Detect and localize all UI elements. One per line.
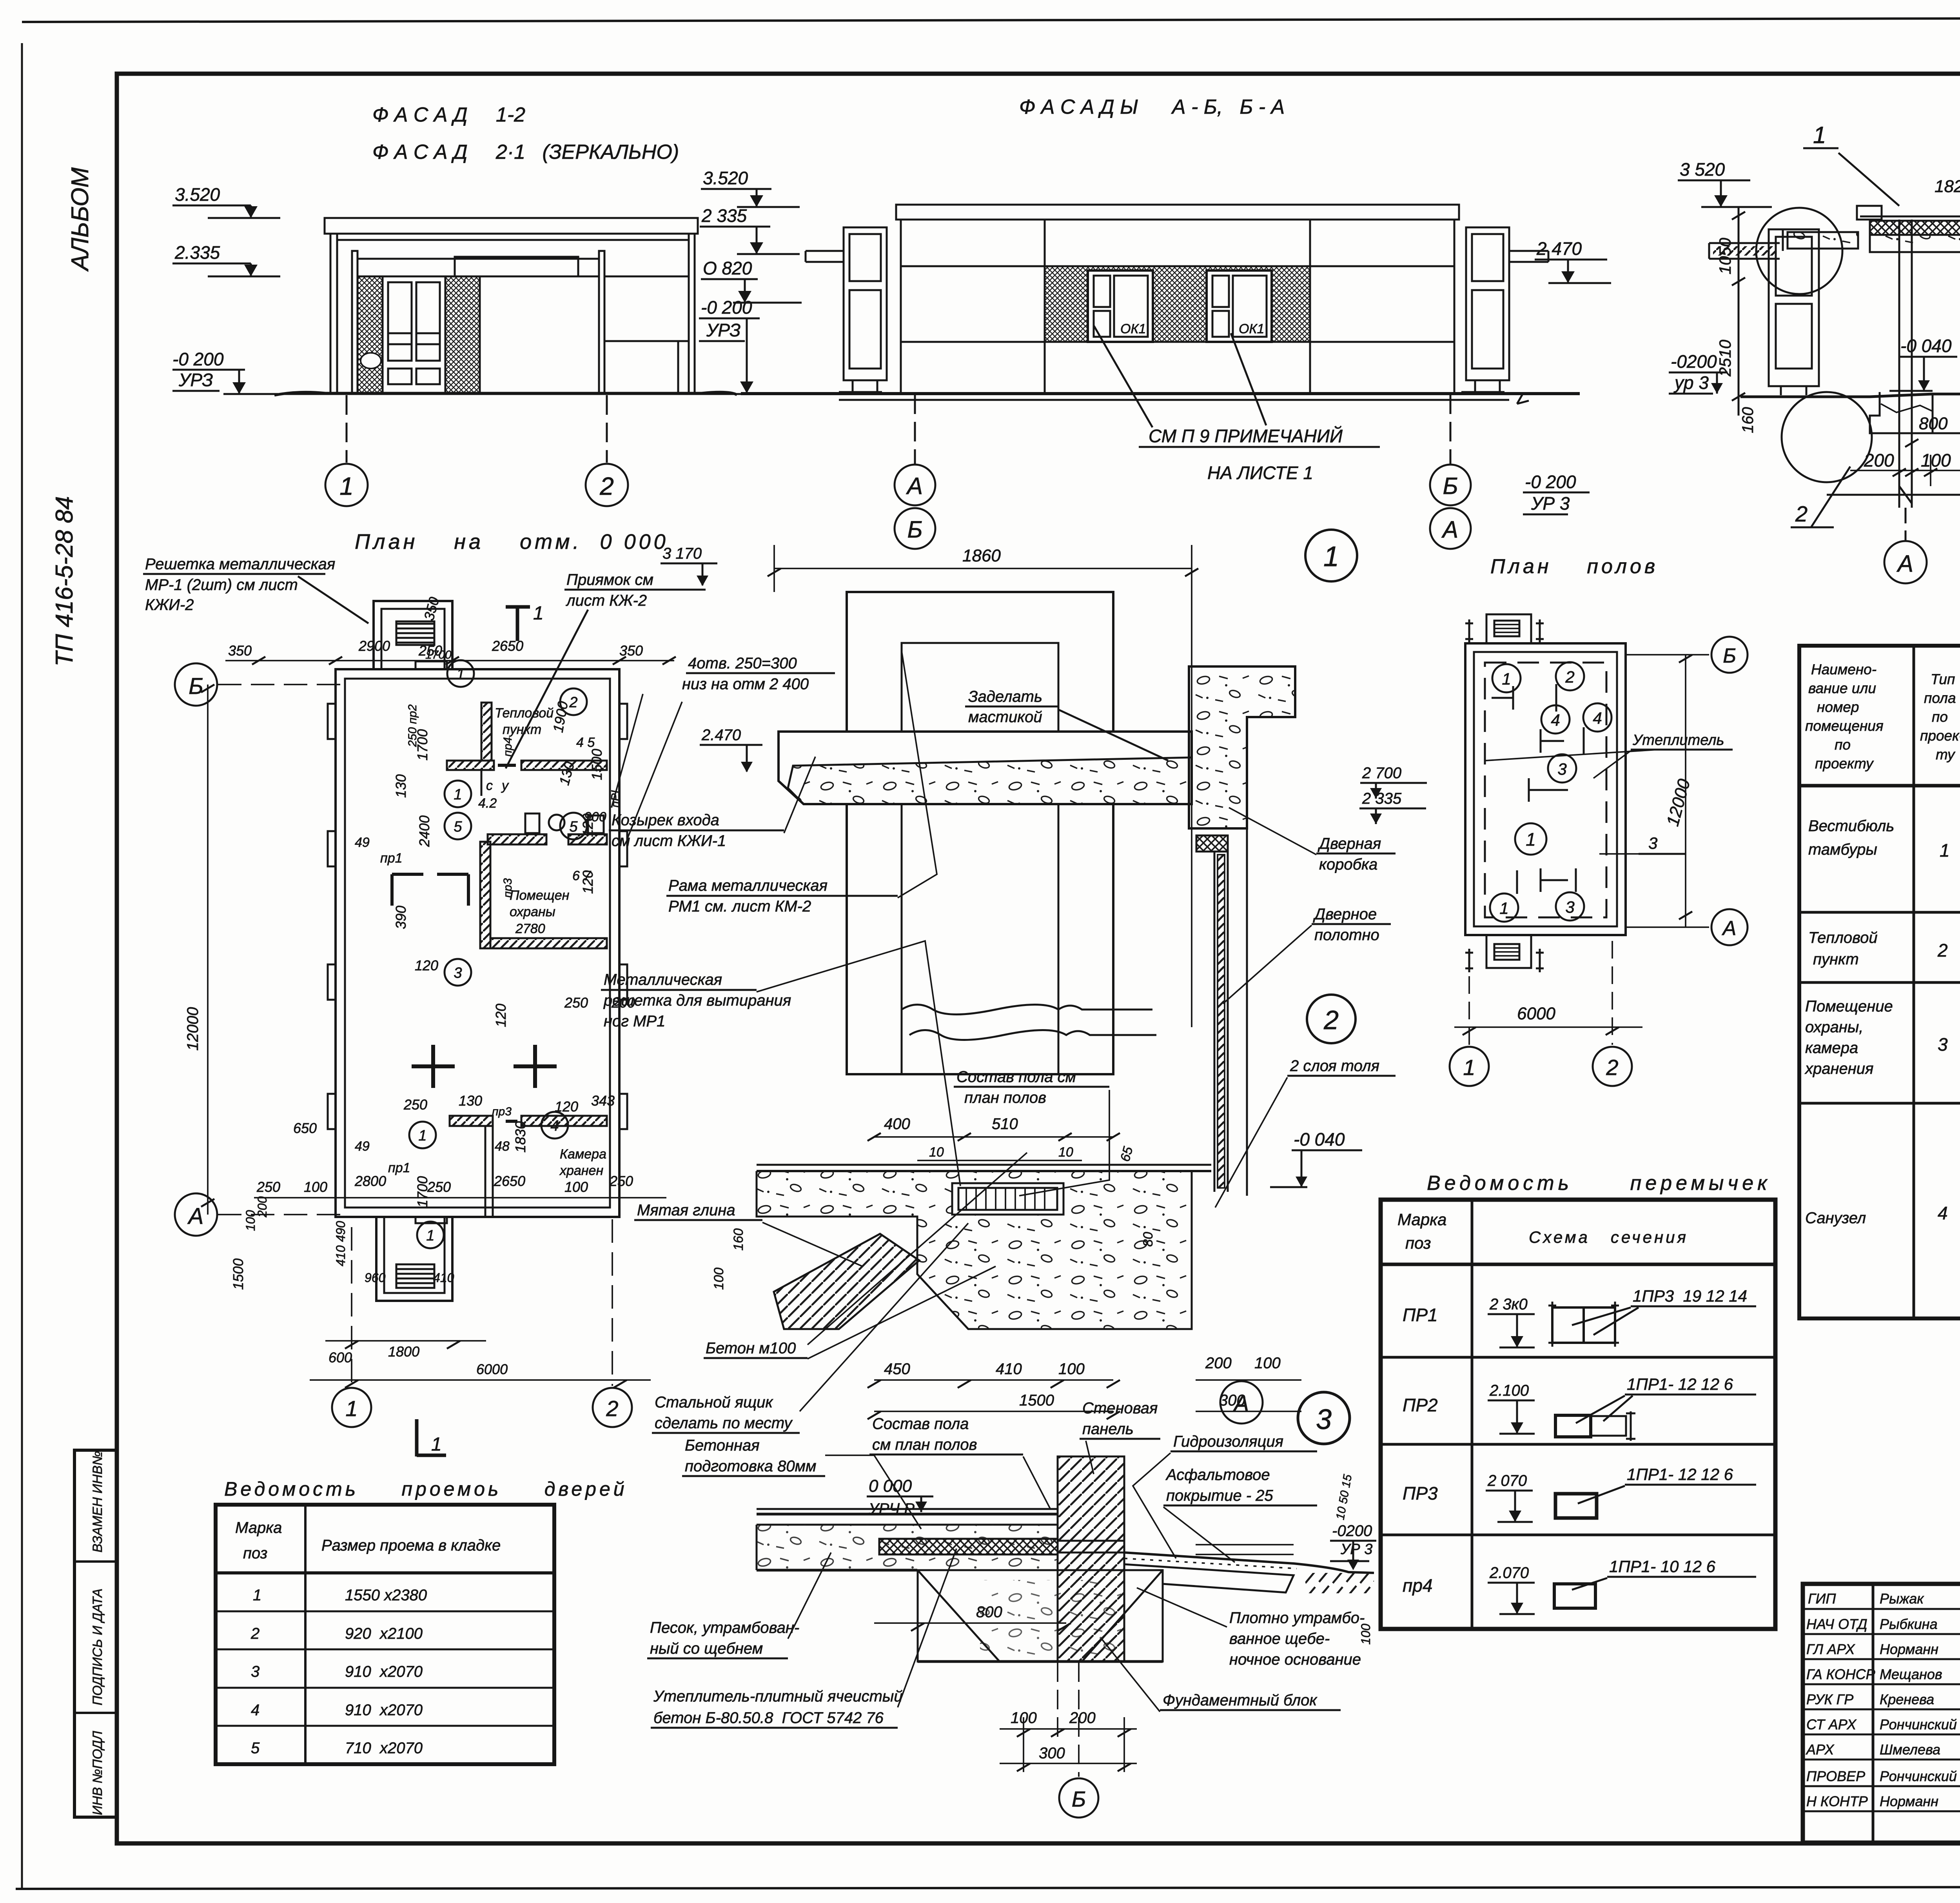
svg-text:Решетка металлическая: Решетка металлическая bbox=[145, 556, 335, 573]
svg-text:камера: камера bbox=[1805, 1039, 1858, 1057]
svg-text:120: 120 bbox=[580, 813, 596, 837]
svg-text:130: 130 bbox=[459, 1093, 482, 1109]
svg-text:1800: 1800 bbox=[388, 1344, 419, 1360]
svg-text:1ПР1- 10 12 6: 1ПР1- 10 12 6 bbox=[1609, 1557, 1716, 1576]
svg-text:200: 200 bbox=[1864, 450, 1894, 470]
svg-text:коробка: коробка bbox=[1319, 856, 1377, 873]
svg-text:2 335: 2 335 bbox=[701, 205, 747, 226]
svg-text:1ПР1- 12 12 6: 1ПР1- 12 12 6 bbox=[1627, 1375, 1733, 1393]
svg-text:План полов: План полов bbox=[1490, 555, 1658, 578]
svg-text:сделать по месту: сделать по месту bbox=[655, 1415, 793, 1432]
svg-text:350: 350 bbox=[228, 643, 252, 659]
svg-text:1: 1 bbox=[454, 786, 462, 803]
svg-text:Помещение: Помещение bbox=[1805, 998, 1893, 1015]
svg-text:Б: Б bbox=[1072, 1787, 1086, 1811]
svg-text:ПР3: ПР3 bbox=[1403, 1483, 1438, 1504]
svg-text:Норманн: Норманн bbox=[1880, 1641, 1938, 1657]
svg-text:ванное щебе-: ванное щебе- bbox=[1229, 1630, 1330, 1647]
svg-text:пр3: пр3 bbox=[501, 878, 514, 898]
svg-text:4: 4 bbox=[251, 1701, 260, 1719]
svg-text:Стеновая: Стеновая bbox=[1082, 1400, 1158, 1417]
svg-text:Утеплитель-плитный ячеистый: Утеплитель-плитный ячеистый bbox=[653, 1688, 903, 1705]
svg-text:А: А bbox=[1722, 917, 1737, 940]
svg-text:ног МР1: ног МР1 bbox=[604, 1013, 665, 1030]
svg-text:ОК1: ОК1 bbox=[1239, 321, 1264, 336]
svg-text:4отв. 250=300: 4отв. 250=300 bbox=[688, 655, 797, 672]
svg-text:-0 200: -0 200 bbox=[701, 297, 752, 318]
svg-text:800: 800 bbox=[976, 1603, 1002, 1621]
svg-text:120: 120 bbox=[580, 870, 596, 894]
svg-text:2: 2 bbox=[569, 694, 577, 711]
svg-text:6000: 6000 bbox=[476, 1361, 508, 1377]
svg-text:Мещанов: Мещанов bbox=[1880, 1666, 1942, 1682]
svg-text:по: по bbox=[1932, 709, 1948, 725]
svg-text:3: 3 bbox=[1648, 834, 1657, 852]
svg-text:НА ЛИСТЕ 1: НА ЛИСТЕ 1 bbox=[1207, 463, 1313, 483]
svg-text:182-82 0 1 40: 182-82 0 1 40 bbox=[1935, 177, 1960, 196]
svg-text:2650: 2650 bbox=[494, 1173, 525, 1189]
svg-text:5: 5 bbox=[454, 819, 462, 835]
svg-text:3: 3 bbox=[1938, 1034, 1948, 1055]
svg-text:Рыбкина: Рыбкина bbox=[1880, 1616, 1938, 1632]
svg-text:Бетонная: Бетонная bbox=[685, 1437, 760, 1454]
svg-text:960: 960 bbox=[365, 1271, 386, 1285]
svg-text:910 х2070: 910 х2070 bbox=[345, 1701, 423, 1719]
svg-text:ВЗАМЕН ИНВ№: ВЗАМЕН ИНВ№ bbox=[90, 1451, 105, 1553]
svg-text:2 слоя толя: 2 слоя толя bbox=[1290, 1057, 1379, 1075]
svg-text:вание или: вание или bbox=[1808, 680, 1876, 696]
svg-text:Ф А С А Д 2·1 (ЗЕРКАЛЬНО: Ф А С А Д 2·1 (ЗЕРКАЛЬНО) bbox=[372, 141, 679, 163]
svg-text:120: 120 bbox=[415, 957, 438, 973]
svg-text:1050: 1050 bbox=[1716, 238, 1734, 274]
svg-text:пр4: пр4 bbox=[501, 737, 514, 757]
svg-text:2: 2 bbox=[1565, 668, 1574, 686]
svg-text:ИНВ №ПОДЛ: ИНВ №ПОДЛ bbox=[90, 1730, 105, 1815]
svg-text:1500: 1500 bbox=[589, 749, 605, 780]
svg-text:2 470: 2 470 bbox=[1536, 238, 1582, 259]
svg-text:2 070: 2 070 bbox=[1487, 1472, 1527, 1489]
svg-text:100: 100 bbox=[1254, 1355, 1281, 1372]
svg-text:мастикой: мастикой bbox=[968, 708, 1042, 726]
svg-text:хранения: хранения bbox=[1804, 1060, 1873, 1077]
svg-text:пункт: пункт bbox=[1813, 951, 1859, 968]
svg-text:1: 1 bbox=[345, 1396, 358, 1421]
svg-text:2900: 2900 bbox=[358, 638, 390, 654]
svg-text:ПР2: ПР2 bbox=[1403, 1395, 1438, 1415]
svg-text:2650: 2650 bbox=[492, 638, 523, 654]
svg-text:2.470: 2.470 bbox=[701, 726, 741, 744]
svg-text:номер: номер bbox=[1817, 699, 1859, 715]
svg-text:РМ1 см. лист КМ-2: РМ1 см. лист КМ-2 bbox=[668, 898, 811, 915]
svg-text:410: 410 bbox=[996, 1360, 1022, 1378]
svg-text:АЛЬБОМ: АЛЬБОМ bbox=[67, 167, 94, 272]
svg-text:2 335: 2 335 bbox=[1362, 790, 1402, 807]
svg-text:О 820: О 820 bbox=[703, 258, 752, 278]
svg-text:ный со щебнем: ный со щебнем bbox=[650, 1640, 763, 1657]
svg-text:200: 200 bbox=[1205, 1355, 1232, 1372]
svg-text:Тепловой: Тепловой bbox=[1808, 929, 1878, 946]
svg-text:450: 450 bbox=[884, 1360, 910, 1378]
svg-text:160: 160 bbox=[1739, 407, 1757, 433]
svg-text:А: А bbox=[187, 1204, 204, 1229]
svg-text:Наимено-: Наимено- bbox=[1811, 661, 1877, 677]
svg-text:3: 3 bbox=[251, 1663, 260, 1680]
svg-text:ГИП: ГИП bbox=[1808, 1591, 1836, 1607]
svg-text:хранен: хранен bbox=[559, 1163, 603, 1178]
svg-text:Ведомость проемоь двер: Ведомость проемоь дверей bbox=[224, 1478, 628, 1500]
svg-text:пРL: пРL bbox=[609, 787, 622, 808]
svg-text:Рончинский: Рончинский bbox=[1880, 1716, 1957, 1732]
svg-text:УРЗ: УРЗ bbox=[706, 320, 740, 340]
svg-text:Песок, утрамбован-: Песок, утрамбован- bbox=[650, 1619, 799, 1636]
svg-text:Козырек входа: Козырек входа bbox=[612, 812, 719, 829]
svg-text:250 пр2: 250 пр2 bbox=[406, 704, 419, 747]
svg-text:Бетон м100: Бетон м100 bbox=[706, 1340, 796, 1357]
svg-text:-0 040: -0 040 bbox=[1294, 1129, 1345, 1149]
svg-text:2.335: 2.335 bbox=[174, 242, 220, 263]
svg-text:НАЧ ОТД: НАЧ ОТД bbox=[1806, 1616, 1867, 1632]
svg-text:350: 350 bbox=[619, 643, 643, 659]
svg-text:160: 160 bbox=[731, 1228, 746, 1251]
svg-text:5: 5 bbox=[251, 1740, 260, 1757]
svg-text:Санузел: Санузел bbox=[1805, 1209, 1866, 1227]
svg-text:поз: поз bbox=[1405, 1234, 1431, 1252]
svg-text:пр3: пр3 bbox=[492, 1105, 512, 1118]
svg-text:-0 200: -0 200 bbox=[172, 349, 224, 369]
svg-text:Дверная: Дверная bbox=[1318, 835, 1381, 852]
svg-text:Размер проема в кладке: Размер проема в кладке bbox=[321, 1537, 501, 1554]
svg-text:Заделать: Заделать bbox=[968, 688, 1042, 705]
svg-text:920 х2100: 920 х2100 bbox=[345, 1625, 423, 1642]
svg-text:1: 1 bbox=[1813, 122, 1826, 148]
svg-text:200: 200 bbox=[1069, 1709, 1096, 1727]
svg-text:1: 1 bbox=[1526, 829, 1536, 850]
svg-text:100: 100 bbox=[304, 1179, 327, 1195]
svg-text:910 х2070: 910 х2070 bbox=[345, 1663, 423, 1680]
svg-text:343: 343 bbox=[591, 1093, 615, 1109]
svg-text:1: 1 bbox=[533, 603, 544, 624]
svg-text:Дверное: Дверное bbox=[1313, 906, 1377, 923]
svg-text:проекту: проекту bbox=[1815, 755, 1874, 772]
svg-text:2780: 2780 bbox=[515, 921, 545, 936]
svg-text:130: 130 bbox=[393, 774, 409, 798]
svg-text:250: 250 bbox=[609, 1173, 633, 1189]
svg-text:120: 120 bbox=[555, 1099, 578, 1115]
svg-text:ГЛ АРХ: ГЛ АРХ bbox=[1806, 1641, 1855, 1657]
svg-text:УР 3: УР 3 bbox=[1531, 493, 1570, 514]
svg-text:Тепловой: Тепловой bbox=[495, 706, 554, 721]
svg-text:4: 4 bbox=[1551, 711, 1560, 729]
svg-text:-0 200: -0 200 bbox=[1525, 472, 1576, 492]
svg-text:Марка: Марка bbox=[1397, 1210, 1446, 1229]
svg-text:2 3к0: 2 3к0 bbox=[1489, 1296, 1528, 1313]
svg-text:12000: 12000 bbox=[1663, 777, 1694, 828]
svg-text:ОК1: ОК1 bbox=[1120, 321, 1146, 336]
svg-text:3.520: 3.520 bbox=[703, 168, 748, 188]
svg-text:покрытие - 25: покрытие - 25 bbox=[1166, 1487, 1273, 1504]
svg-text:2.100: 2.100 bbox=[1489, 1382, 1529, 1399]
svg-text:1: 1 bbox=[418, 1128, 426, 1144]
svg-text:-0200: -0200 bbox=[1671, 351, 1717, 372]
svg-text:2: 2 bbox=[250, 1625, 260, 1642]
svg-text:80: 80 bbox=[1141, 1232, 1156, 1247]
svg-text:2: 2 bbox=[1795, 501, 1808, 526]
svg-text:СМ П 9 ПРИМЕЧАНИЙ: СМ П 9 ПРИМЕЧАНИЙ bbox=[1149, 425, 1343, 446]
svg-text:250: 250 bbox=[256, 1179, 280, 1195]
svg-text:2.070: 2.070 bbox=[1489, 1564, 1529, 1582]
svg-text:3.520: 3.520 bbox=[175, 184, 220, 205]
svg-text:1: 1 bbox=[1502, 670, 1511, 688]
svg-text:Ф А С А Д 1-2: Ф А С А Д 1-2 bbox=[372, 104, 525, 126]
svg-text:3: 3 bbox=[1316, 1404, 1332, 1435]
svg-text:Вестибюль: Вестибюль bbox=[1808, 817, 1894, 835]
svg-text:Асфальтовое: Асфальтовое bbox=[1165, 1466, 1270, 1484]
svg-text:1830: 1830 bbox=[512, 1121, 528, 1153]
svg-text:А: А bbox=[1233, 1391, 1249, 1416]
svg-text:пр1: пр1 bbox=[388, 1160, 410, 1175]
svg-text:2400: 2400 bbox=[416, 815, 432, 847]
svg-text:МР-1 (2шт) см лист: МР-1 (2шт) см лист bbox=[145, 576, 298, 594]
svg-text:подготовка 80мм: подготовка 80мм bbox=[685, 1458, 816, 1475]
svg-text:2: 2 bbox=[599, 472, 614, 500]
svg-text:1: 1 bbox=[431, 1434, 442, 1455]
svg-text:охраны: охраны bbox=[510, 904, 555, 919]
svg-text:48: 48 bbox=[495, 1139, 510, 1154]
svg-text:710 х2070: 710 х2070 bbox=[345, 1740, 423, 1757]
svg-text:поз: поз bbox=[243, 1545, 267, 1562]
svg-text:Кренева: Кренева bbox=[1880, 1691, 1934, 1707]
svg-text:-0 040: -0 040 bbox=[1900, 336, 1952, 356]
svg-text:КЖИ-2: КЖИ-2 bbox=[145, 596, 194, 614]
svg-text:Н КОНТР: Н КОНТР bbox=[1806, 1793, 1868, 1809]
svg-text:650: 650 bbox=[293, 1120, 317, 1136]
svg-text:1: 1 bbox=[339, 472, 354, 500]
svg-text:4: 4 bbox=[550, 1118, 559, 1134]
svg-text:Ведомость перемычек: Ведомость перемычек bbox=[1427, 1172, 1771, 1195]
svg-text:А: А bbox=[1896, 550, 1913, 577]
svg-text:3: 3 bbox=[1557, 760, 1566, 778]
svg-text:100: 100 bbox=[1359, 1623, 1373, 1645]
svg-text:6000: 6000 bbox=[1517, 1004, 1555, 1023]
svg-text:см план полов: см план полов bbox=[872, 1436, 977, 1453]
svg-text:4.2: 4.2 bbox=[478, 796, 497, 811]
svg-text:1: 1 bbox=[253, 1587, 261, 1604]
svg-text:100: 100 bbox=[1058, 1360, 1085, 1378]
svg-text:А: А bbox=[1441, 516, 1458, 543]
svg-text:100: 100 bbox=[1921, 450, 1951, 470]
svg-text:4 5: 4 5 bbox=[576, 735, 595, 750]
svg-text:Стальной ящик: Стальной ящик bbox=[655, 1394, 773, 1411]
svg-text:1860: 1860 bbox=[962, 546, 1001, 565]
svg-text:ГА КОНСР: ГА КОНСР bbox=[1806, 1666, 1875, 1682]
svg-text:пр4: пр4 bbox=[1403, 1575, 1432, 1596]
svg-text:полотно: полотно bbox=[1314, 926, 1379, 944]
svg-text:по: по bbox=[1835, 737, 1851, 753]
svg-text:510: 510 bbox=[992, 1115, 1018, 1133]
svg-text:12000: 12000 bbox=[184, 1007, 201, 1051]
svg-text:ПР1: ПР1 bbox=[1403, 1305, 1438, 1325]
svg-text:панель: панель bbox=[1082, 1420, 1134, 1438]
svg-text:3 520: 3 520 bbox=[1680, 159, 1725, 180]
svg-text:Состав пола см: Состав пола см bbox=[956, 1068, 1076, 1086]
svg-text:ПОДПИСЬ И ДАТА: ПОДПИСЬ И ДАТА bbox=[90, 1589, 105, 1705]
svg-text:см лист КЖИ-1: см лист КЖИ-1 bbox=[612, 832, 726, 850]
svg-text:проек-: проек- bbox=[1920, 728, 1960, 744]
svg-text:3: 3 bbox=[1565, 898, 1574, 916]
svg-text:100: 100 bbox=[564, 1179, 588, 1195]
svg-text:пункт: пункт bbox=[503, 722, 541, 737]
svg-text:2: 2 bbox=[1323, 1005, 1339, 1035]
svg-text:390: 390 bbox=[393, 906, 409, 929]
svg-text:1550 х2380: 1550 х2380 bbox=[345, 1587, 427, 1604]
svg-text:350: 350 bbox=[421, 595, 442, 622]
svg-text:600: 600 bbox=[328, 1349, 352, 1366]
svg-text:Марка: Марка bbox=[235, 1519, 282, 1536]
svg-text:4: 4 bbox=[1593, 709, 1602, 727]
svg-text:410: 410 bbox=[433, 1271, 454, 1285]
svg-text:Норманн: Норманн bbox=[1880, 1793, 1938, 1809]
svg-text:ночное основание: ночное основание bbox=[1229, 1651, 1361, 1668]
svg-text:ТП 416-5-28 84: ТП 416-5-28 84 bbox=[51, 496, 78, 666]
svg-text:2: 2 bbox=[1606, 1055, 1618, 1080]
svg-text:УРЗ: УРЗ bbox=[178, 370, 213, 390]
svg-text:2: 2 bbox=[1937, 940, 1948, 961]
svg-text:3 170: 3 170 bbox=[662, 545, 702, 562]
svg-text:Плотно утрамбо-: Плотно утрамбо- bbox=[1229, 1609, 1365, 1627]
svg-text:10 50 15: 10 50 15 bbox=[1334, 1473, 1354, 1521]
svg-text:УР 3: УР 3 bbox=[1340, 1541, 1372, 1558]
svg-text:1: 1 bbox=[1499, 899, 1508, 917]
svg-text:1ПР1- 12 12 6: 1ПР1- 12 12 6 bbox=[1627, 1465, 1733, 1484]
svg-text:Б: Б bbox=[907, 516, 922, 543]
svg-text:с: с bbox=[486, 778, 493, 793]
svg-text:1900: 1900 bbox=[550, 700, 571, 734]
svg-text:800: 800 bbox=[1919, 414, 1948, 433]
svg-text:Состав пола: Состав пола bbox=[872, 1415, 969, 1433]
svg-text:100: 100 bbox=[711, 1267, 726, 1290]
svg-text:пр1: пр1 bbox=[380, 851, 403, 866]
svg-text:1500: 1500 bbox=[1019, 1392, 1054, 1409]
svg-text:Шмелева: Шмелева bbox=[1880, 1741, 1940, 1758]
svg-text:пола: пола bbox=[1924, 690, 1956, 706]
svg-text:2800: 2800 bbox=[354, 1173, 386, 1189]
svg-text:250: 250 bbox=[403, 1097, 427, 1113]
svg-text:4: 4 bbox=[1938, 1203, 1948, 1223]
svg-text:Ф А С А Д Ы А - Б, Б -: Ф А С А Д Ы А - Б, Б - А bbox=[1019, 96, 1285, 118]
svg-text:1: 1 bbox=[426, 1228, 434, 1244]
svg-text:Фундаментный блок: Фундаментный блок bbox=[1163, 1692, 1318, 1709]
svg-text:лист КЖ-2: лист КЖ-2 bbox=[566, 592, 647, 609]
svg-text:бетон Б-80.50.8 ГОСТ 5742 76: бетон Б-80.50.8 ГОСТ 5742 76 bbox=[653, 1709, 884, 1727]
svg-text:решетка для вытирания: решетка для вытирания bbox=[603, 992, 791, 1009]
svg-text:10: 10 bbox=[929, 1145, 944, 1160]
svg-text:2: 2 bbox=[606, 1396, 618, 1421]
svg-text:Тип: Тип bbox=[1931, 671, 1955, 687]
svg-text:Рончинский: Рончинский bbox=[1880, 1768, 1957, 1784]
svg-text:3: 3 bbox=[454, 965, 462, 981]
svg-text:А: А bbox=[906, 473, 923, 499]
svg-text:СТ АРХ: СТ АРХ bbox=[1806, 1716, 1857, 1732]
svg-text:Приямок см: Приямок см bbox=[566, 571, 653, 588]
svg-text:5: 5 bbox=[569, 819, 578, 835]
svg-text:Мятая глина: Мятая глина bbox=[637, 1202, 735, 1219]
svg-text:100: 100 bbox=[243, 1210, 258, 1231]
svg-text:1: 1 bbox=[1463, 1055, 1475, 1080]
svg-text:Б: Б bbox=[1723, 645, 1736, 667]
svg-text:Металлическая: Металлическая bbox=[604, 971, 722, 988]
svg-text:1500: 1500 bbox=[230, 1258, 246, 1290]
svg-text:ПРОВЕР: ПРОВЕР bbox=[1806, 1768, 1865, 1784]
svg-text:1: 1 bbox=[1940, 840, 1950, 861]
svg-text:120: 120 bbox=[493, 1004, 509, 1027]
svg-text:Помещен: Помещен bbox=[510, 888, 570, 903]
svg-text:план полов: план полов bbox=[964, 1089, 1046, 1106]
svg-text:300: 300 bbox=[1039, 1745, 1065, 1762]
svg-text:2510: 2510 bbox=[1716, 340, 1734, 377]
svg-text:охраны,: охраны, bbox=[1805, 1019, 1863, 1036]
svg-text:10: 10 bbox=[1058, 1145, 1073, 1160]
svg-text:250: 250 bbox=[418, 643, 442, 659]
svg-text:Б: Б bbox=[189, 674, 203, 699]
svg-text:2 700: 2 700 bbox=[1362, 764, 1401, 782]
svg-text:ту: ту bbox=[1936, 746, 1956, 763]
svg-text:Камера: Камера bbox=[560, 1147, 606, 1162]
svg-text:250: 250 bbox=[427, 1179, 451, 1195]
svg-text:65: 65 bbox=[1118, 1145, 1136, 1163]
svg-text:у: у bbox=[501, 778, 509, 793]
svg-text:1ПР3 19 12 14: 1ПР3 19 12 14 bbox=[1633, 1287, 1747, 1305]
svg-text:тамбуры: тамбуры bbox=[1808, 841, 1877, 858]
svg-text:Схема сечения: Схема сечения bbox=[1529, 1228, 1688, 1246]
svg-text:1: 1 bbox=[456, 666, 465, 683]
svg-text:помещения: помещения bbox=[1805, 718, 1884, 734]
svg-text:ур 3: ур 3 bbox=[1673, 372, 1709, 393]
svg-text:-0200: -0200 bbox=[1332, 1522, 1372, 1540]
svg-text:49: 49 bbox=[355, 835, 370, 850]
svg-text:410 490: 410 490 bbox=[334, 1221, 348, 1266]
svg-text:49: 49 bbox=[355, 1139, 370, 1154]
svg-text:Утеплитель: Утеплитель bbox=[1632, 732, 1724, 748]
svg-text:АРХ: АРХ bbox=[1806, 1741, 1835, 1758]
svg-text:1: 1 bbox=[1323, 541, 1339, 572]
svg-text:400: 400 bbox=[884, 1115, 910, 1133]
svg-text:Рама металлическая: Рама металлическая bbox=[668, 877, 828, 894]
svg-text:РУК ГР: РУК ГР bbox=[1806, 1691, 1853, 1707]
svg-text:250: 250 bbox=[564, 995, 588, 1011]
svg-text:План на отм. 0 000: План на отм. 0 000 bbox=[355, 530, 669, 554]
svg-text:низ на отм 2 400: низ на отм 2 400 bbox=[682, 675, 809, 693]
svg-text:Гидроизоляция: Гидроизоляция bbox=[1173, 1433, 1283, 1450]
svg-text:Б: Б bbox=[1443, 473, 1458, 499]
svg-text:Рыжак: Рыжак bbox=[1880, 1591, 1924, 1607]
